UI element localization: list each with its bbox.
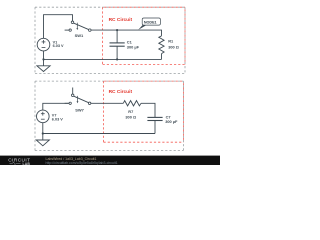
wire C1 branch upper	[116, 30, 118, 43]
SW7 pivot terminal circle	[71, 94, 74, 97]
wire bottom rail (bottom circuit)	[43, 133, 155, 135]
SW7 left stub	[65, 102, 69, 104]
svg-text:RC Circuit: RC Circuit	[109, 17, 133, 23]
SW1 arrow	[76, 23, 78, 30]
wire bottom rail (top circuit)	[44, 58, 162, 60]
svg-text:300 µF: 300 µF	[165, 119, 178, 124]
annotation box gray (bottom section)	[35, 81, 183, 150]
wire SW1 right terminal to R1 corner	[90, 30, 162, 36]
node junction dot C1 bottom	[116, 58, 118, 60]
SW1 pivot terminal circle	[71, 21, 74, 24]
SW7 blade	[74, 96, 90, 103]
capacitor C1	[110, 43, 125, 46]
annotation box gray (top section)	[35, 7, 185, 73]
resistor R1	[159, 36, 164, 54]
footer black bar	[0, 156, 220, 165]
wire SW7 right to R7	[90, 102, 124, 104]
ground (top circuit)	[37, 66, 50, 72]
node junction dot top rail	[116, 29, 118, 31]
SW1 left stub	[65, 29, 69, 31]
wire R1 bottom to rail	[161, 54, 163, 60]
switch SW7	[65, 96, 90, 103]
svg-text:6.03 V: 6.03 V	[52, 117, 63, 121]
svg-text:LAB: LAB	[23, 162, 31, 165]
SW1 left terminal circle	[69, 29, 71, 31]
annotation box red RC Circuit (bottom section)	[104, 81, 184, 142]
node label NODE1 callout	[138, 25, 146, 30]
SW1 right terminal circle	[89, 29, 92, 32]
svg-text:SW7: SW7	[75, 107, 84, 112]
switch SW1	[65, 23, 89, 30]
SW7 left terminal circle	[69, 102, 71, 104]
svg-text:NODE1: NODE1	[144, 21, 157, 25]
svg-text:6.03 V: 6.03 V	[53, 44, 64, 48]
SW7 right terminal circle	[88, 102, 91, 105]
svg-text:R7: R7	[128, 109, 133, 114]
wire V1 bottom	[43, 51, 45, 60]
wire R7 to C7 corner	[141, 103, 155, 117]
wire V7 bottom	[42, 123, 44, 134]
voltage source V7	[37, 110, 50, 123]
node junction dot V7 ground	[42, 132, 44, 134]
wire ground stub (top)	[43, 59, 45, 65]
svg-text:300 µF: 300 µF	[127, 45, 140, 50]
wire C1 branch lower	[116, 46, 118, 59]
svg-text:R1: R1	[168, 38, 174, 43]
voltage source V1	[37, 38, 50, 51]
wire V7 top to SW7 left stub	[43, 103, 69, 110]
SW1 blade	[73, 23, 89, 30]
wire SW7 pivot stub (open)	[72, 88, 74, 96]
node junction dot V1 ground	[42, 58, 44, 60]
svg-text:300 Ω: 300 Ω	[125, 115, 136, 120]
wire ground stub (bottom)	[42, 134, 44, 141]
svg-text:SW1: SW1	[75, 33, 84, 38]
wire V1 top to SW1 pivot	[44, 15, 73, 39]
SW7 arrow	[77, 96, 79, 103]
svg-text:http://circuitlab.com/c/8y5e5a: http://circuitlab.com/c/8y5e5a8r5q/lab3-…	[46, 161, 118, 165]
capacitor C7	[147, 117, 162, 120]
ground (bottom circuit)	[36, 140, 49, 146]
wire C7 bottom to rail	[154, 121, 156, 134]
svg-text:300 Ω: 300 Ω	[168, 45, 179, 50]
resistor R7	[123, 101, 141, 106]
annotation box red RC Circuit (top section)	[103, 7, 185, 64]
svg-text:RC Circuit: RC Circuit	[109, 89, 133, 95]
